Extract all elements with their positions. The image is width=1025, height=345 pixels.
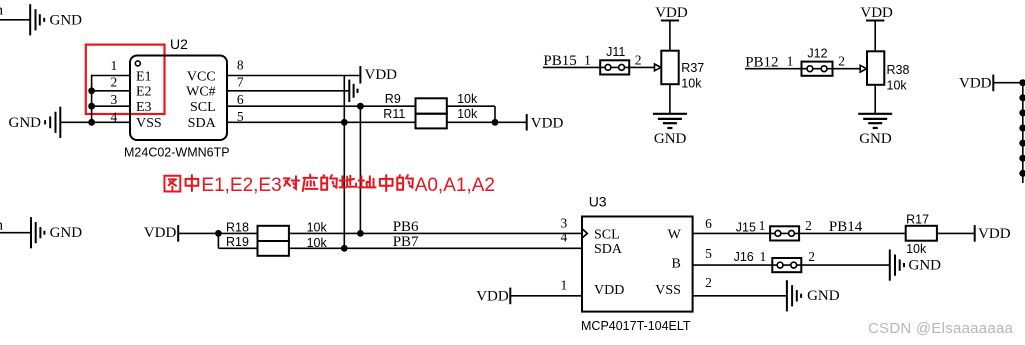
ground (J16)	[889, 250, 891, 281]
wire left bus	[91, 75, 93, 123]
svg-text:GND: GND	[50, 225, 83, 241]
svg-text:VDD: VDD	[144, 225, 177, 241]
svg-text:n: n	[0, 218, 4, 234]
svg-text:6: 6	[705, 216, 712, 231]
svg-text:2: 2	[635, 52, 642, 67]
wire	[669, 21, 671, 52]
power VDD (pullups)	[526, 114, 528, 130]
svg-text:7: 7	[237, 75, 244, 90]
power VDD (U2 VCC)	[359, 66, 361, 83]
wire vertical SDA drop	[343, 76, 345, 249]
svg-text:CSDN @Elsaaaaaaa: CSDN @Elsaaaaaaa	[868, 320, 1014, 337]
svg-text:R37: R37	[681, 61, 704, 75]
svg-text:GND: GND	[654, 131, 687, 147]
resistor R19	[258, 241, 289, 256]
svg-text:VDD: VDD	[959, 75, 992, 91]
node PB7 junction	[341, 245, 348, 252]
wire R9 out	[447, 105, 495, 107]
power VDD (R17)	[974, 225, 976, 242]
svg-text:3: 3	[561, 215, 568, 230]
svg-text:1: 1	[759, 218, 766, 233]
resistor R18	[258, 226, 289, 241]
svg-text:R38: R38	[887, 63, 910, 77]
svg-text:PB6: PB6	[393, 219, 419, 235]
wire	[874, 21, 876, 52]
svg-text:VSS: VSS	[136, 116, 162, 131]
svg-text:10k: 10k	[887, 78, 908, 92]
svg-text:WC#: WC#	[186, 85, 216, 100]
wire net PB7	[289, 247, 582, 249]
wire pin1 E1	[92, 75, 130, 77]
svg-text:J11: J11	[606, 45, 625, 59]
ground GND (R38)	[858, 113, 892, 115]
ground GND (R37)	[653, 113, 687, 115]
svg-text:SCL: SCL	[594, 227, 620, 242]
resistor R11	[416, 114, 447, 129]
node pullup junction	[492, 119, 499, 126]
potentiometer R37	[661, 51, 678, 84]
ground (WC#)	[348, 80, 350, 102]
svg-text:SDA: SDA	[188, 116, 217, 131]
wire VDD to R18	[178, 232, 257, 234]
wire R17 to VDD	[937, 232, 975, 234]
connector pin column	[1022, 83, 1024, 183]
svg-text:GND: GND	[50, 12, 83, 28]
svg-text:GND: GND	[9, 115, 42, 131]
svg-text:6: 6	[237, 92, 244, 107]
svg-text:1: 1	[584, 52, 591, 67]
svg-text:R18: R18	[226, 220, 249, 234]
svg-text:1: 1	[111, 58, 118, 73]
svg-text:U3: U3	[589, 193, 607, 209]
node PB6 junction	[357, 230, 364, 237]
wire pin2 E2	[92, 90, 130, 92]
svg-text:MCP4017T-104ELT: MCP4017T-104ELT	[581, 319, 691, 333]
svg-text:VDD: VDD	[531, 115, 564, 131]
svg-text:VDD: VDD	[594, 283, 624, 298]
svg-text:VSS: VSS	[655, 283, 681, 298]
svg-text:VDD: VDD	[655, 5, 688, 21]
node R18 R19 junction	[215, 230, 222, 237]
svg-text:5: 5	[705, 246, 712, 261]
IC U3 body	[582, 217, 693, 312]
svg-text:J15: J15	[736, 220, 756, 234]
svg-text:2: 2	[705, 275, 712, 290]
svg-text:VCC: VCC	[187, 69, 216, 84]
svg-text:GND: GND	[807, 288, 840, 304]
svg-text:J12: J12	[807, 47, 827, 61]
svg-text:10k: 10k	[457, 107, 478, 121]
wire VDD to connector	[993, 82, 1023, 84]
wire net PB6	[289, 232, 582, 234]
svg-text:E2: E2	[136, 85, 152, 100]
svg-text:VDD: VDD	[476, 289, 509, 305]
clock arrow SCL	[582, 229, 587, 239]
node SCL junction	[357, 103, 364, 110]
wire W to J15	[693, 232, 906, 234]
wire pin6 SCL	[227, 105, 416, 107]
wire	[0, 19, 30, 21]
resistor R17	[906, 226, 937, 241]
wire R11 out	[447, 121, 495, 123]
svg-text:2: 2	[111, 75, 118, 90]
wire pin3 E3	[92, 105, 130, 107]
annotation text red	[164, 175, 198, 191]
wire R37 to ground	[669, 84, 671, 114]
wire pullup join	[494, 106, 496, 122]
svg-text:SDA: SDA	[594, 242, 623, 257]
svg-text:A0,A1,A2: A0,A1,A2	[415, 175, 495, 196]
wire VSS to ground	[693, 295, 787, 297]
svg-text:1: 1	[561, 278, 568, 293]
svg-text:VDD: VDD	[978, 226, 1011, 242]
svg-text:PB7: PB7	[393, 234, 419, 250]
svg-text:4: 4	[111, 110, 118, 125]
node E2 junction	[88, 87, 95, 94]
svg-text:E1,E2,E3: E1,E2,E3	[201, 175, 281, 196]
wire pin7 WC#	[227, 90, 349, 92]
wire	[0, 232, 31, 234]
svg-text:J16: J16	[734, 250, 754, 264]
svg-text:2: 2	[805, 218, 812, 233]
svg-text:GND: GND	[859, 131, 892, 147]
svg-text:2: 2	[838, 54, 845, 69]
wire pin5 SDA	[227, 121, 416, 123]
ground (U3 VSS)	[786, 280, 788, 311]
svg-text:2: 2	[808, 249, 815, 264]
node E3 junction	[88, 103, 95, 110]
ground GND (left middle)	[30, 217, 32, 248]
svg-text:R9: R9	[385, 92, 401, 106]
IC U2 body	[130, 56, 227, 141]
resistor R9	[416, 98, 447, 113]
svg-text:VDD: VDD	[365, 67, 398, 83]
svg-text:U2: U2	[170, 36, 188, 52]
pin 1 indicator	[135, 61, 140, 66]
svg-text:R19: R19	[226, 235, 249, 249]
wire U3 VDD	[510, 295, 582, 297]
wire to VDD	[495, 121, 527, 123]
svg-text:PB14: PB14	[829, 219, 863, 235]
wire R38 to ground	[874, 85, 876, 114]
svg-text:10k: 10k	[307, 220, 328, 234]
svg-text:8: 8	[237, 57, 244, 72]
wire pin8 VCC	[227, 75, 360, 77]
svg-text:VDD: VDD	[860, 5, 893, 21]
svg-text:E1: E1	[136, 69, 152, 84]
svg-text:B: B	[672, 257, 681, 272]
svg-text:10k: 10k	[457, 92, 478, 106]
wire down to R19	[217, 233, 219, 248]
svg-text:10k: 10k	[906, 242, 927, 256]
svg-text:n: n	[0, 3, 4, 19]
svg-text:E3: E3	[136, 100, 152, 115]
svg-text:1: 1	[787, 54, 794, 69]
svg-text:R17: R17	[906, 212, 929, 226]
svg-text:SCL: SCL	[190, 100, 216, 115]
svg-text:M24C02-WMN6TP: M24C02-WMN6TP	[124, 146, 230, 160]
svg-text:4: 4	[561, 229, 568, 244]
svg-text:1: 1	[760, 249, 767, 264]
wire vertical SCL drop	[359, 106, 361, 233]
node VSS junction	[88, 119, 95, 126]
red annotation box around E1 E2 E3	[86, 45, 165, 114]
wire VSS	[60, 121, 130, 123]
svg-text:10k: 10k	[681, 76, 702, 90]
svg-text:R11: R11	[383, 107, 405, 121]
potentiometer R38	[867, 51, 884, 85]
svg-text:GND: GND	[909, 257, 942, 273]
node SDA junction	[341, 119, 348, 126]
svg-text:W: W	[668, 227, 682, 242]
ground GND (top left)	[29, 4, 31, 35]
wire B to J16	[693, 264, 890, 266]
svg-text:3: 3	[111, 92, 118, 107]
